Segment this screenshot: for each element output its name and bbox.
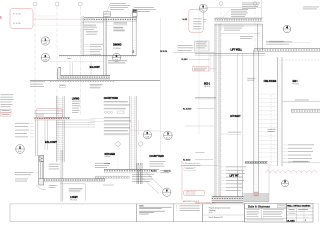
- svg-text:BED 1: BED 1: [293, 79, 298, 83]
- svg-text:ISSUED FOR CONSTRUCTION: ISSUED FOR CONSTRUCTION: [195, 203, 215, 205]
- svg-text:KITCHEN: KITCHEN: [105, 152, 116, 156]
- svg-text:FIRE STAIRS: FIRE STAIRS: [264, 79, 277, 83]
- svg-text:RL 30.50: RL 30.50: [183, 159, 190, 161]
- svg-text:DINING: DINING: [113, 42, 122, 46]
- svg-text:RL 38.9: RL 38.9: [182, 59, 188, 61]
- svg-text:FFL 38.90: FFL 38.90: [293, 84, 300, 86]
- svg-text:BALCONY: BALCONY: [90, 65, 100, 69]
- svg-text:LIVING: LIVING: [72, 97, 80, 101]
- svg-text:36.35 RL: 36.35 RL: [160, 51, 167, 53]
- svg-text:FFL 36.35: FFL 36.35: [204, 86, 211, 88]
- svg-text:6x SD: 6x SD: [183, 19, 188, 21]
- svg-text:LIFT WELL: LIFT WELL: [231, 49, 243, 52]
- svg-text:Dale & Sharman: Dale & Sharman: [248, 205, 271, 208]
- svg-text:FFL 38.900: FFL 38.900: [113, 48, 121, 50]
- svg-text:WALL DETAILS 1&2/B1/2: WALL DETAILS 1&2/B1/2: [287, 205, 310, 208]
- svg-text:RL 38.950: RL 38.950: [13, 23, 21, 25]
- svg-text:RL 39.350: RL 39.350: [13, 14, 21, 16]
- svg-text:FFL 36.35: FFL 36.35: [70, 200, 77, 202]
- svg-text:2: 2: [305, 220, 306, 222]
- svg-text:LIFT SHAFT: LIFT SHAFT: [230, 114, 241, 118]
- svg-text:COURTYARD: COURTYARD: [149, 154, 163, 158]
- svg-text:COURTYARD: COURTYARD: [104, 96, 118, 100]
- svg-text:BED 1: BED 1: [204, 82, 210, 86]
- svg-text:LIFT PIT: LIFT PIT: [230, 174, 239, 178]
- svg-text:A-111: A-111: [287, 219, 296, 222]
- svg-text:(Geelong): (Geelong): [209, 210, 216, 212]
- svg-text:4: 4: [286, 25, 288, 29]
- svg-text:BALCONY: BALCONY: [45, 140, 57, 144]
- svg-text:LOBBY: LOBBY: [70, 195, 78, 199]
- svg-text:RL 35.800: RL 35.800: [183, 108, 191, 110]
- svg-text:RL 35.8: RL 35.8: [151, 171, 157, 173]
